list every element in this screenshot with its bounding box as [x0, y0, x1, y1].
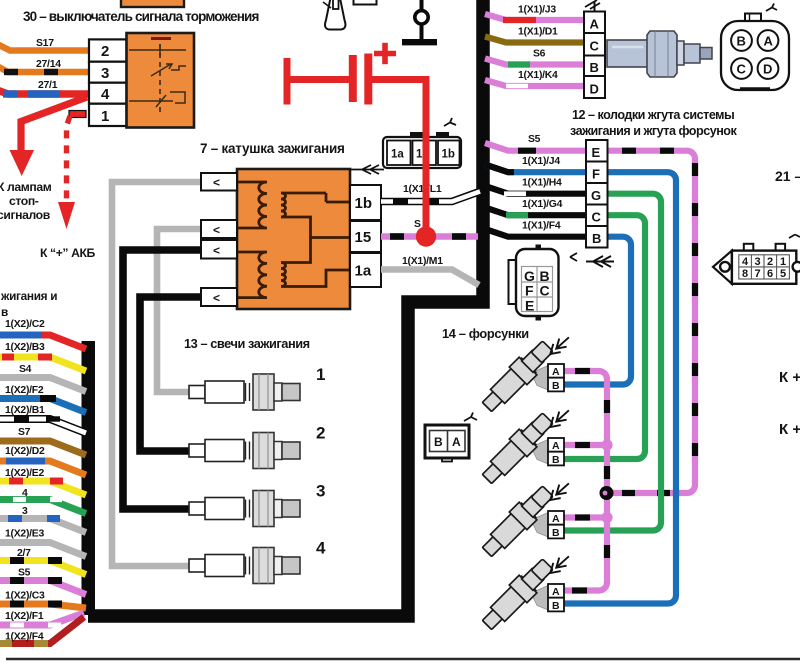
coil right pin box 1a	[350, 253, 381, 287]
svg-text:S5: S5	[18, 568, 31, 579]
svg-text:1(X1)/G4: 1(X1)/G4	[522, 199, 563, 210]
svg-text:2/7: 2/7	[17, 548, 31, 559]
svg-text:13 – свечи зажигания: 13 – свечи зажигания	[184, 336, 310, 351]
svg-text:К лампам: К лампам	[0, 180, 52, 194]
wire coil pin2 to plug 1 (gray)	[157, 229, 201, 392]
svg-text:1: 1	[780, 256, 786, 268]
pin box 3	[89, 62, 127, 83]
injector 1	[478, 333, 572, 416]
spark plug 2	[189, 424, 325, 469]
svg-text:К +: К +	[779, 369, 800, 386]
svg-text:1(X1)/M1: 1(X1)/M1	[402, 256, 443, 267]
round 4-pin connector	[721, 4, 789, 91]
wire S5 stub	[485, 143, 586, 151]
wire 4	[0, 500, 86, 514]
wire S4	[0, 378, 86, 392]
svg-text:2: 2	[101, 43, 109, 60]
svg-text:1(X1)/J4: 1(X1)/J4	[522, 156, 560, 167]
svg-text:21 –: 21 –	[775, 168, 800, 184]
svg-text:1a: 1a	[391, 149, 404, 161]
svg-text:1(X1)/L1: 1(X1)/L1	[403, 184, 442, 195]
pin box E	[586, 140, 608, 162]
wire 1(X1)/J4 stub	[485, 165, 586, 173]
svg-text:1(X2)/F4: 1(X2)/F4	[5, 632, 44, 643]
switch top mark	[151, 37, 171, 40]
svg-text:1(X1)/J3: 1(X1)/J3	[518, 5, 556, 16]
wire coil pin4 to plug 2 (black)	[140, 297, 201, 451]
wire 1(X2)/E3	[0, 543, 86, 557]
wire 1(X2)/C2	[0, 335, 86, 349]
svg-text:B: B	[592, 231, 601, 246]
spark plug 1	[189, 365, 325, 410]
svg-text:B: B	[434, 435, 443, 449]
svg-text:B: B	[552, 454, 560, 466]
wire S7	[0, 441, 86, 455]
svg-text:2: 2	[767, 256, 773, 268]
coil left pin box 4	[201, 288, 237, 306]
wire S6	[485, 59, 584, 65]
wire 1(X2)/B1 (white with black dashes)	[0, 419, 86, 433]
wire 1b to trunk (white/black)	[381, 191, 481, 202]
svg-text:7 – катушка зажигания: 7 – катушка зажигания	[200, 141, 345, 156]
svg-text:A: A	[552, 586, 560, 598]
wire S17	[0, 44, 89, 51]
wire 1(X2)/B3	[0, 357, 86, 371]
svg-text:1(X1)/K4: 1(X1)/K4	[518, 70, 558, 81]
svg-text:B: B	[737, 34, 746, 49]
wire 1(X2)/F2	[0, 399, 86, 413]
wire 15 to trunk (pink)	[381, 233, 478, 240]
svg-text:A: A	[764, 34, 774, 49]
coil left pin box 3	[201, 240, 237, 259]
wire 1(X2)/E2	[0, 481, 86, 495]
long wire E to junction (pink S5)	[608, 151, 696, 493]
coil body	[237, 169, 350, 309]
switch dashed stem	[159, 44, 161, 113]
svg-text:G: G	[591, 188, 601, 203]
red wire over connector (redraw segment)	[423, 130, 430, 237]
svg-text:1(X2)/C3: 1(X2)/C3	[5, 591, 45, 602]
svg-text:1(X2)/F2: 1(X2)/F2	[5, 385, 44, 396]
svg-text:1: 1	[316, 365, 325, 384]
svg-text:5: 5	[780, 268, 786, 280]
svg-text:1(X2)/E2: 1(X2)/E2	[5, 468, 44, 479]
bolt style connector body	[607, 31, 712, 77]
svg-text:в: в	[1, 305, 8, 319]
wire 1(X2)/D2	[0, 461, 86, 475]
svg-text:27/1: 27/1	[38, 80, 58, 91]
wire 1a to trunk (gray)	[381, 270, 479, 286]
svg-text:A: A	[552, 513, 560, 525]
pin box B	[584, 56, 605, 77]
switch contact bottom	[129, 95, 173, 107]
svg-text:D: D	[590, 82, 599, 97]
flask shape (cut off at top)	[325, 0, 345, 30]
svg-text:1(X2)/B1: 1(X2)/B1	[5, 405, 45, 416]
red junction on 15 wire	[416, 226, 436, 246]
connector GB FC E	[509, 245, 559, 321]
pin box C	[584, 33, 605, 56]
long wire B to injector 1 B (blue)	[564, 237, 631, 385]
svg-text:S7: S7	[18, 427, 31, 438]
coil right pin box 1b	[350, 185, 381, 220]
svg-text:1(X2)/C2: 1(X2)/C2	[5, 319, 45, 330]
bottom frame line	[6, 658, 800, 661]
svg-text:1(X2)/F1: 1(X2)/F1	[5, 611, 44, 622]
svg-text:B: B	[552, 380, 560, 392]
wire 1(X1)/K4	[485, 80, 584, 86]
svg-text:1b: 1b	[355, 195, 373, 212]
svg-text:4: 4	[101, 86, 110, 103]
svg-text:14 – форсунки: 14 – форсунки	[442, 326, 529, 341]
svg-text:C: C	[540, 283, 550, 299]
wire S5 left	[0, 581, 86, 595]
svg-text:1(X1)/D1: 1(X1)/D1	[518, 27, 558, 38]
svg-text:S6: S6	[533, 49, 546, 60]
wire 27/14	[0, 66, 89, 72]
brake switch body	[127, 33, 195, 128]
svg-text:1(X1)/H4: 1(X1)/H4	[522, 178, 562, 189]
pin box F	[586, 162, 608, 184]
svg-text:зажигания и жгута форсунок: зажигания и жгута форсунок	[570, 124, 738, 138]
black dashes on pink chain	[572, 371, 607, 591]
svg-text:1: 1	[101, 108, 109, 125]
continuation marks left of GBFCE connector	[570, 253, 577, 261]
wire 27/1	[0, 90, 89, 94]
pin box C2row	[586, 205, 608, 227]
red stub at pin 1	[69, 111, 86, 118]
svg-text:3: 3	[755, 256, 761, 268]
wire 1(X2)/F1 (pink with white dashes)	[0, 613, 84, 625]
pink stub injector 2 A	[564, 442, 607, 448]
svg-text:B: B	[552, 527, 560, 539]
pin box 4	[89, 83, 127, 104]
svg-text:4: 4	[316, 539, 326, 558]
svg-text:F: F	[592, 167, 600, 182]
svg-text:1(X2)/D2: 1(X2)/D2	[5, 446, 45, 457]
svg-text:S17: S17	[36, 38, 54, 49]
pin box 1	[89, 104, 127, 126]
svg-text:C: C	[590, 39, 600, 54]
svg-text:S5: S5	[528, 134, 541, 145]
junction S5 feed (black ring)	[600, 486, 614, 500]
svg-text:15: 15	[355, 229, 372, 246]
pink stub injector 3 A	[564, 514, 607, 520]
svg-text:8: 8	[742, 268, 748, 280]
wire 3	[0, 519, 86, 533]
svg-text:4: 4	[22, 488, 28, 499]
svg-text:27/14: 27/14	[36, 59, 61, 70]
wire battery plus to coil 15	[368, 80, 426, 237]
pin box A	[584, 12, 605, 34]
svg-text:<: <	[213, 223, 220, 237]
wire coil pin1 to plug 4 (gray)	[112, 182, 201, 566]
wire coil pin3 to plug 3 (black)	[123, 250, 201, 509]
svg-text:сигналов: сигналов	[0, 208, 51, 222]
svg-text:3: 3	[101, 65, 109, 82]
svg-text:1(X2)/B3: 1(X2)/B3	[5, 342, 45, 353]
orange box fragment at top edge	[121, 0, 184, 7]
tab above box A with continuation mark	[594, 2, 596, 12]
pin box G	[586, 183, 608, 205]
spark plug 4	[189, 539, 326, 584]
svg-text:A: A	[552, 440, 560, 452]
coil internal windings	[237, 182, 350, 298]
connector 1a/15/1b above coil	[383, 132, 461, 168]
long wire C to injector 2 B (green)	[564, 215, 645, 459]
svg-text:12 – колодки жгута системы: 12 – колодки жгута системы	[572, 108, 734, 122]
injector 3	[478, 479, 572, 561]
coil left pin box 2	[201, 220, 237, 238]
long wire F to injector 4 B (blue)	[564, 172, 676, 603]
wire 1(X2)/F4	[0, 617, 84, 644]
svg-text:D: D	[763, 62, 772, 77]
coil right pin box 15	[350, 221, 381, 252]
red branch wire to stop lamps	[21, 97, 87, 152]
battery symbol	[287, 43, 396, 105]
svg-text:К +: К +	[779, 421, 800, 438]
svg-text:C: C	[592, 210, 602, 225]
svg-text:S4: S4	[19, 364, 32, 375]
spark plug 3	[189, 482, 325, 527]
ground symbol	[420, 0, 424, 11]
switch contact middle	[151, 64, 172, 76]
svg-text:К “+” АКБ: К “+” АКБ	[40, 246, 96, 260]
wire 1(X1)/D1	[485, 37, 584, 43]
svg-text:4: 4	[742, 256, 749, 268]
svg-text:<: <	[213, 176, 220, 190]
svg-text:B: B	[552, 600, 560, 612]
svg-text:1(X2)/E3: 1(X2)/E3	[5, 529, 44, 540]
svg-text:<: <	[213, 244, 220, 258]
pin box 2	[89, 39, 127, 61]
svg-text:<: <	[213, 291, 220, 305]
svg-text:A: A	[552, 366, 560, 378]
wire 2/7	[0, 561, 86, 575]
switch contact top	[129, 49, 186, 51]
svg-text:3: 3	[22, 506, 28, 517]
svg-text:стоп-: стоп-	[9, 194, 39, 208]
arrowhead to stop lamps	[10, 150, 35, 176]
junction injector3 A (pink dot)	[601, 512, 612, 523]
dashed red wire to battery +	[67, 116, 71, 206]
wire 1(X1)/F4 stub	[485, 229, 586, 237]
trunk bar left harness	[82, 341, 96, 615]
injector 4	[478, 552, 572, 634]
svg-text:A: A	[590, 17, 600, 32]
pin box B2row	[586, 226, 608, 248]
arrowhead to AKB	[58, 202, 75, 229]
wire 1(X1)/H4 stub	[485, 186, 586, 194]
svg-text:B: B	[590, 60, 599, 75]
continuation mark above coil	[350, 165, 384, 174]
Y mark near connector	[444, 118, 456, 126]
pin box D	[584, 76, 605, 98]
svg-text:1b: 1b	[442, 149, 455, 161]
wire 1(X1)/G4 stub	[485, 208, 586, 216]
coil left pin box 1	[201, 173, 237, 191]
svg-text:E: E	[525, 298, 534, 314]
injector 2	[478, 406, 572, 488]
svg-text:7: 7	[755, 268, 761, 280]
svg-text:1a: 1a	[355, 263, 372, 280]
svg-text:2: 2	[316, 424, 325, 443]
svg-text:F: F	[525, 283, 534, 299]
wire 1(X1)/J3	[485, 14, 584, 20]
svg-text:жигания и: жигания и	[0, 289, 57, 303]
svg-text:1(X1)/F4: 1(X1)/F4	[522, 221, 561, 232]
svg-text:30 – выключатель сигнала тормо: 30 – выключатель сигнала торможения	[23, 9, 259, 24]
svg-text:3: 3	[316, 482, 325, 501]
svg-text:E: E	[592, 145, 601, 160]
connector B|A	[425, 413, 477, 462]
pink daisy chain wire (injector A pins)	[564, 371, 607, 591]
long wire G to injector 3 B (green)	[564, 194, 661, 531]
wire 1(X2)/C3	[0, 604, 86, 608]
svg-text:6: 6	[767, 268, 773, 280]
small cut-off box top	[354, 0, 377, 5]
junction injector2 A (pink dot)	[601, 439, 612, 450]
trunk bar right	[88, 0, 483, 616]
connector 21 (oct with numbers)	[713, 235, 800, 284]
svg-text:C: C	[737, 62, 747, 77]
svg-text:A: A	[452, 435, 461, 449]
